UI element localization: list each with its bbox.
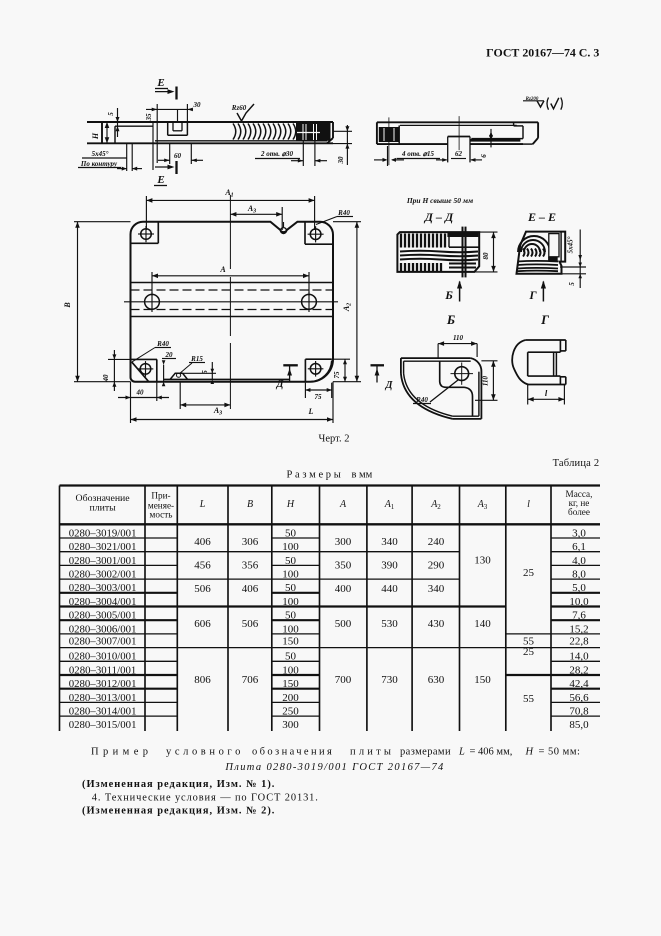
view2 roughness Rz200 mark <box>523 97 562 110</box>
svg-text:мость: мость <box>150 510 173 520</box>
svg-text:Н: Н <box>525 747 535 758</box>
svg-text:= 50 мм:: = 50 мм: <box>539 747 581 758</box>
svg-text:0280–3004/001: 0280–3004/001 <box>69 596 137 608</box>
svg-text:150: 150 <box>474 674 491 686</box>
plan dim L <box>131 382 334 423</box>
svg-text:4 отв. ⌀15: 4 отв. ⌀15 <box>401 150 435 158</box>
svg-text:Д: Д <box>385 380 394 391</box>
svg-text:Д – Д: Д – Д <box>424 210 454 224</box>
view Г bracket <box>512 340 566 385</box>
svg-text:75: 75 <box>315 393 323 401</box>
svg-text:30: 30 <box>193 101 202 109</box>
view2 plate body outline <box>377 122 538 144</box>
svg-text:Н: Н <box>91 132 100 140</box>
plan section mark Д left <box>276 365 298 390</box>
section Д-Д dim 80 <box>474 232 497 272</box>
svg-text:406: 406 <box>194 536 211 548</box>
plan dim A3 top <box>230 204 282 230</box>
svg-text:0280–3002/001: 0280–3002/001 <box>69 568 137 580</box>
svg-text:456: 456 <box>194 560 211 572</box>
svg-text:0280–3010/001: 0280–3010/001 <box>69 651 137 663</box>
svg-text:50: 50 <box>285 582 297 594</box>
svg-text:Е: Е <box>156 77 164 89</box>
svg-text:15,2: 15,2 <box>569 623 588 635</box>
svg-text:Е: Е <box>156 174 164 186</box>
view Б R40 leader <box>413 380 458 404</box>
view Б dim 110 right <box>475 361 498 401</box>
paragraph Измененная редакция 2 <box>82 805 275 816</box>
caption Размеры в мм <box>287 470 373 481</box>
plan T-slot channel <box>131 283 334 317</box>
svg-text:0280–3007/001: 0280–3007/001 <box>69 635 137 647</box>
view Г dim l <box>528 385 565 405</box>
view1 wavy break arcs <box>233 124 296 140</box>
plan dim A2 <box>333 222 361 382</box>
view2 bottom relief thick line <box>470 140 533 144</box>
view1 roughness Rz60 <box>231 104 254 121</box>
svg-text:условного: условного <box>166 747 244 758</box>
svg-text:6,1: 6,1 <box>572 541 586 553</box>
svg-text:50: 50 <box>285 610 297 622</box>
svg-text:более: более <box>568 507 590 517</box>
svg-text:440: 440 <box>381 583 398 595</box>
plan dim 40 horizontal <box>118 382 169 401</box>
plan R40 bottom-left leader <box>132 340 171 362</box>
svg-text:606: 606 <box>194 618 211 630</box>
table header text <box>76 489 593 520</box>
svg-text:100: 100 <box>282 623 299 635</box>
svg-text:300: 300 <box>282 719 299 731</box>
svg-text:5: 5 <box>568 282 576 286</box>
svg-text:290: 290 <box>428 560 445 572</box>
svg-text:20: 20 <box>165 351 174 359</box>
plan top-left pad <box>131 222 159 244</box>
svg-text:55: 55 <box>523 693 535 705</box>
plan dim 75 vertical <box>332 359 350 382</box>
plan dim 5 (boss) <box>183 362 216 384</box>
plan R40 top-right leader <box>316 209 353 225</box>
svg-text:80: 80 <box>482 252 490 260</box>
section Е-Е drawing <box>517 232 566 274</box>
paragraph Плита обозначение <box>224 762 444 773</box>
svg-text:Г: Г <box>540 312 549 327</box>
svg-text:306: 306 <box>242 536 259 548</box>
svg-text:700: 700 <box>335 674 352 686</box>
svg-text:0280–3019/001: 0280–3019/001 <box>69 527 137 539</box>
plan dim B <box>63 222 131 382</box>
svg-text:Размеры: Размеры <box>287 470 344 481</box>
svg-text:0280–3013/001: 0280–3013/001 <box>69 692 137 704</box>
svg-text:0280–3014/001: 0280–3014/001 <box>69 705 137 717</box>
view1 chamfer note 5х45 по контуру <box>78 143 142 171</box>
plan dim 20 <box>162 351 176 386</box>
svg-text:А3: А3 <box>247 204 256 215</box>
svg-text:А2: А2 <box>430 499 441 511</box>
svg-text:42,4: 42,4 <box>569 678 589 690</box>
svg-text:R40: R40 <box>337 209 350 217</box>
view Б dim 110 top <box>438 334 477 359</box>
svg-text:= 406 мм,: = 406 мм, <box>470 747 513 758</box>
paragraph Пример условного обозначения <box>91 747 580 758</box>
svg-text:Г: Г <box>528 288 537 302</box>
arrow Г (view direction) <box>528 281 546 303</box>
svg-text:А2: А2 <box>342 303 353 312</box>
svg-text:L: L <box>308 407 314 416</box>
plan bottom-right pad <box>305 359 331 383</box>
svg-text:25: 25 <box>523 646 535 658</box>
view Б hole <box>451 363 474 385</box>
view1 dim 30 right <box>333 125 352 165</box>
svg-text:630: 630 <box>428 674 445 686</box>
label Е-Е <box>527 210 556 224</box>
svg-text:340: 340 <box>428 583 445 595</box>
plan dim A1 <box>146 188 314 230</box>
svg-text:40: 40 <box>102 374 110 383</box>
svg-text:5х45°: 5х45° <box>567 236 575 253</box>
svg-text:50: 50 <box>285 555 297 567</box>
table grid <box>60 486 601 732</box>
plan bottom-left pad <box>131 359 157 381</box>
svg-text:L: L <box>199 499 206 510</box>
table body text <box>69 527 589 731</box>
svg-text:356: 356 <box>242 560 259 572</box>
view2 top right notch <box>471 122 523 138</box>
svg-text:мм: мм <box>359 470 373 481</box>
svg-text:B: B <box>247 499 253 510</box>
svg-text:А1: А1 <box>384 499 395 511</box>
svg-text:60: 60 <box>174 152 182 160</box>
svg-text:530: 530 <box>381 618 398 630</box>
svg-text:Д: Д <box>276 379 285 390</box>
svg-text:R40: R40 <box>415 396 428 404</box>
svg-text:130: 130 <box>474 555 491 567</box>
svg-text:Черт. 2: Черт. 2 <box>319 434 350 445</box>
svg-text:240: 240 <box>428 536 445 548</box>
view1 section mark E lower <box>154 161 177 186</box>
view1 dim 30 <box>187 101 201 122</box>
svg-text:430: 430 <box>428 618 445 630</box>
view2 center pocket <box>448 116 470 162</box>
svg-text:А3: А3 <box>477 499 488 511</box>
svg-text:350: 350 <box>335 560 352 572</box>
svg-text:При-: При- <box>151 491 170 501</box>
plan center notch circle <box>281 222 287 234</box>
section Д-Д drawing <box>397 227 479 278</box>
plan dim A <box>152 265 309 296</box>
svg-text:250: 250 <box>282 705 299 717</box>
svg-text:R40: R40 <box>156 340 169 348</box>
svg-text:R15: R15 <box>190 355 203 363</box>
svg-text:5: 5 <box>107 112 115 116</box>
view1 section mark E upper <box>155 77 177 100</box>
svg-text:28,2: 28,2 <box>569 664 588 676</box>
svg-text:В: В <box>63 302 72 309</box>
svg-text:300: 300 <box>335 536 352 548</box>
svg-text:340: 340 <box>381 536 398 548</box>
svg-text:L: L <box>458 747 465 758</box>
svg-text:30: 30 <box>337 156 345 165</box>
svg-text:110: 110 <box>482 375 490 386</box>
view2 dim 6 <box>480 129 493 158</box>
svg-text:Е – Е: Е – Е <box>527 210 556 224</box>
view1 dim H <box>91 122 109 143</box>
svg-text:в: в <box>352 470 357 481</box>
svg-text:0280–3005/001: 0280–3005/001 <box>69 610 137 622</box>
svg-text:150: 150 <box>282 635 299 647</box>
svg-text:3,0: 3,0 <box>572 527 586 539</box>
svg-text:(Измененная редакция, Изм. № 2: (Измененная редакция, Изм. № 2). <box>82 805 275 816</box>
svg-text:плиты: плиты <box>89 503 116 514</box>
svg-text:140: 140 <box>474 618 491 630</box>
svg-text:6: 6 <box>480 154 488 158</box>
svg-text:75: 75 <box>333 371 341 379</box>
svg-text:4. Технические условия — по Г: 4. Технические условия — по ГОСТ 20131. <box>92 792 319 803</box>
svg-text:0280–3011/001: 0280–3011/001 <box>69 664 136 676</box>
view1 dark hatched right end <box>296 123 331 141</box>
note При Н свыше 50 мм <box>406 196 473 205</box>
svg-text:2 отв. ⌀30: 2 отв. ⌀30 <box>260 150 294 158</box>
svg-text:А1: А1 <box>224 188 233 199</box>
plan dim A3 bottom <box>180 382 230 417</box>
svg-text:5х45°: 5х45° <box>92 150 109 158</box>
plan section mark Д right <box>371 365 394 391</box>
svg-text:110: 110 <box>453 334 464 342</box>
svg-text:40: 40 <box>136 389 145 397</box>
section Е-Е dims 5х45 and 5 <box>560 230 586 289</box>
svg-text:плиты: плиты <box>350 747 394 758</box>
label Г (view) <box>540 312 549 327</box>
svg-text:0280–3021/001: 0280–3021/001 <box>69 541 137 553</box>
svg-text:506: 506 <box>242 618 259 630</box>
label Б (view) <box>446 312 455 327</box>
paragraph Измененная редакция 1 <box>82 779 275 790</box>
view1 top-left recess <box>115 122 153 170</box>
svg-text:0280–3015/001: 0280–3015/001 <box>69 719 137 731</box>
view1 T-slot (section E location) <box>168 109 188 135</box>
svg-text:обозначения: обозначения <box>252 747 334 758</box>
svg-text:l: l <box>545 388 548 398</box>
svg-text:506: 506 <box>194 583 211 595</box>
svg-text:0280–3006/001: 0280–3006/001 <box>69 623 137 635</box>
svg-text:Б: Б <box>444 288 453 302</box>
view2 dim 4 отв. ⌀15 <box>374 146 440 166</box>
plan plate outline <box>131 222 334 382</box>
svg-text:8,0: 8,0 <box>572 568 586 580</box>
svg-text:0280–3001/001: 0280–3001/001 <box>69 555 137 567</box>
svg-text:100: 100 <box>282 596 299 608</box>
svg-text:0280–3012/001: 0280–3012/001 <box>69 678 137 690</box>
svg-text:200: 200 <box>282 692 299 704</box>
view2 dim 62 <box>436 150 482 162</box>
svg-text:406: 406 <box>242 583 259 595</box>
svg-text:50: 50 <box>285 651 297 663</box>
svg-text:размерами: размерами <box>400 747 451 758</box>
svg-text:Таблица 2: Таблица 2 <box>553 458 600 469</box>
paragraph пункт 4 <box>92 792 319 803</box>
caption Черт. 2 <box>319 434 350 445</box>
svg-text:150: 150 <box>282 678 299 690</box>
svg-text:706: 706 <box>242 674 259 686</box>
svg-text:390: 390 <box>381 560 398 572</box>
view1 dim 35 <box>145 104 193 163</box>
svg-text:По контуру: По контуру <box>80 160 118 168</box>
svg-text:7,6: 7,6 <box>572 610 586 622</box>
svg-text:22,8: 22,8 <box>569 635 589 647</box>
svg-text:62: 62 <box>455 150 463 158</box>
plan bottom boss with R15 <box>164 355 290 380</box>
svg-text:806: 806 <box>194 674 211 686</box>
view1 dim 60 <box>158 143 203 164</box>
page header: ГОСТ 20167—74 С. 3 <box>486 46 599 60</box>
svg-text:ГОСТ 20167—74 С. 3: ГОСТ 20167—74 С. 3 <box>486 46 599 60</box>
label Д-Д <box>424 210 454 224</box>
plan centreline vertical <box>229 195 231 409</box>
svg-text:100: 100 <box>282 568 299 580</box>
svg-text:Плита 0280-3019/001 ГОСТ 20167: Плита 0280-3019/001 ГОСТ 20167—74 <box>224 762 444 773</box>
svg-text:0280–3003/001: 0280–3003/001 <box>69 582 137 594</box>
view1 dim 5 (recess depth) <box>107 108 120 137</box>
svg-text:5,0: 5,0 <box>572 582 586 594</box>
svg-text:70,8: 70,8 <box>569 705 589 717</box>
svg-text:Б: Б <box>446 312 455 327</box>
svg-text:Н: Н <box>286 499 295 510</box>
svg-text:А: А <box>339 499 347 510</box>
svg-text:10,0: 10,0 <box>569 596 589 608</box>
svg-text:50: 50 <box>285 527 297 539</box>
view2 left hatched pad <box>379 117 399 165</box>
plan slot holes <box>124 292 338 312</box>
svg-text:35: 35 <box>145 113 153 122</box>
svg-text:А: А <box>219 265 226 274</box>
view1 plate body outline <box>87 122 333 143</box>
svg-text:14,0: 14,0 <box>569 651 589 663</box>
svg-text:100: 100 <box>282 664 299 676</box>
svg-text:85,0: 85,0 <box>569 719 589 731</box>
view1 dim 2 отв. ⌀30 <box>255 142 327 167</box>
plan dim 75 horizontal <box>305 383 331 401</box>
svg-text:100: 100 <box>282 541 299 553</box>
svg-text:500: 500 <box>335 618 352 630</box>
svg-text:(Измененная редакция, Изм. № 1: (Измененная редакция, Изм. № 1). <box>82 779 275 790</box>
caption Таблица 2 <box>553 458 600 469</box>
svg-text:При Н свыше 50 мм: При Н свыше 50 мм <box>406 196 473 205</box>
svg-text:400: 400 <box>335 583 352 595</box>
plan top-right pad <box>305 222 333 245</box>
svg-text:Пример: Пример <box>91 747 152 758</box>
view Б corner detail <box>401 358 482 419</box>
svg-text:56,6: 56,6 <box>569 692 589 704</box>
svg-text:l: l <box>527 499 530 510</box>
svg-text:Rz60: Rz60 <box>231 104 247 112</box>
plan dim 40 vertical <box>102 350 131 391</box>
svg-text:25: 25 <box>523 567 535 579</box>
svg-text:730: 730 <box>381 674 398 686</box>
svg-text:5: 5 <box>201 370 209 374</box>
svg-text:4,0: 4,0 <box>572 555 586 567</box>
svg-text:А3: А3 <box>213 406 222 417</box>
arrow Б (view direction) <box>444 281 462 303</box>
